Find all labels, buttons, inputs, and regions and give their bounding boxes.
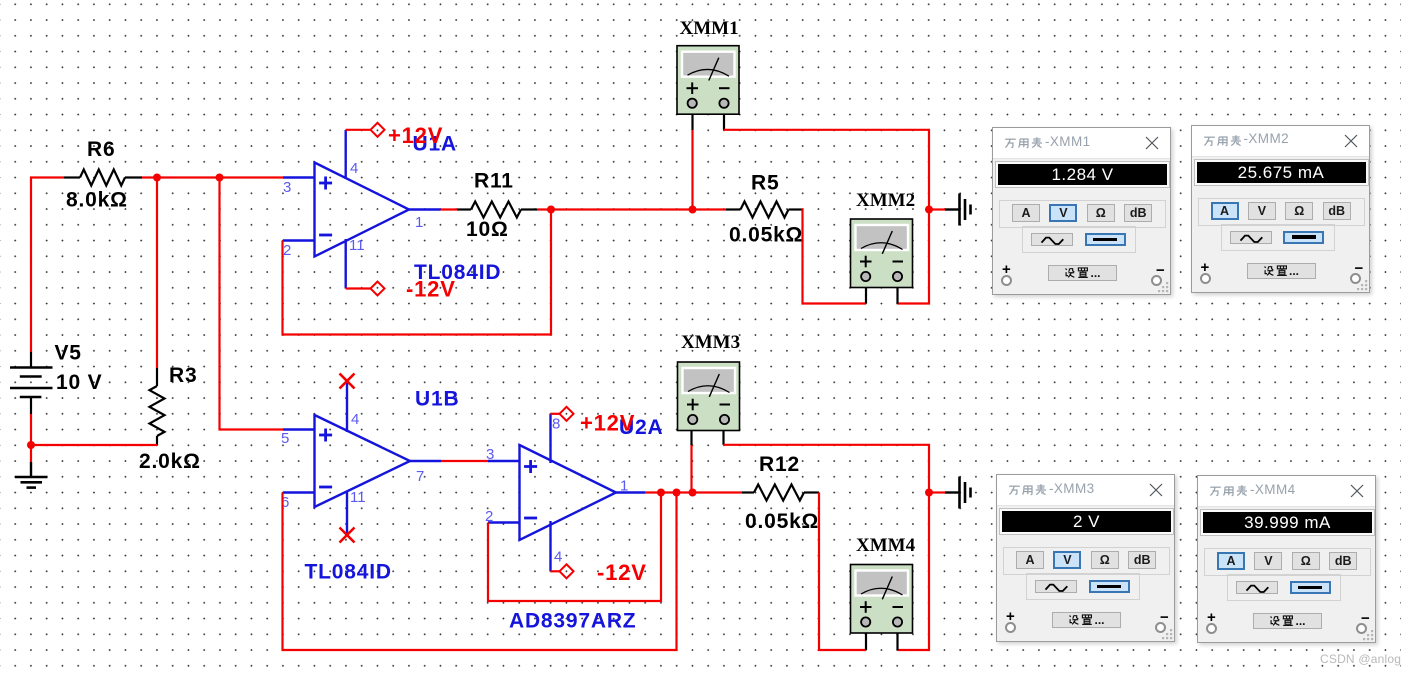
wire: V5 top to R6 left: [31, 178, 64, 353]
wire: R6 to U1A pin3: [142, 176, 283, 178]
wire: U1A feedback loop (pin2): [283, 210, 552, 335]
svg-text:2: 2: [485, 508, 493, 525]
svg-text:0.05kΩ: 0.05kΩ: [729, 224, 803, 247]
junction: U1B branch tap: [216, 174, 224, 182]
svg-text:U1B: U1B: [415, 388, 459, 411]
svg-text:4: 4: [554, 549, 562, 566]
svg-text:10Ω: 10Ω: [466, 218, 509, 241]
svg-text:4: 4: [350, 160, 358, 177]
svg-text:1: 1: [620, 478, 628, 495]
svg-text:+12V: +12V: [388, 123, 443, 148]
wire: XMM4 minus to ground node: [898, 493, 930, 651]
svg-text:R11: R11: [474, 170, 514, 193]
svg-text:2.0kΩ: 2.0kΩ: [139, 450, 201, 473]
junction: ground node (bottom): [925, 489, 933, 497]
wire: R11 to R5: [537, 208, 726, 210]
svg-text:0.05kΩ: 0.05kΩ: [745, 510, 819, 533]
XMM2 minus terminal stub: [896, 288, 898, 304]
ground (V5): [15, 462, 48, 488]
power -12V (U1A pin 11): [346, 277, 456, 302]
svg-text:R3: R3: [169, 364, 197, 387]
svg-text:4: 4: [351, 411, 359, 428]
wire: tap down to U1B pin5: [220, 178, 284, 430]
svg-text:5: 5: [281, 430, 289, 447]
wire: tap down to R3: [156, 178, 158, 369]
svg-text:R6: R6: [87, 138, 115, 161]
wire: XMM3 plus down to output node: [690, 429, 692, 493]
op-amp U2A (AD8397ARZ): [485, 414, 663, 633]
wire: U1B output to U2A pin3: [441, 460, 490, 462]
resistor R11: [457, 170, 537, 242]
resistor R3: [139, 364, 201, 473]
wire: XMM1 plus down to output node: [691, 115, 693, 210]
ground (top right): [929, 194, 971, 226]
junction: U1B feedback tap: [673, 489, 681, 497]
power +12V (U1A pin 4): [346, 123, 444, 148]
svg-text:XMM3: XMM3: [681, 332, 740, 353]
svg-text:2: 2: [283, 242, 291, 259]
wire: U1A output to R11: [441, 208, 458, 210]
junction: R3 tap: [153, 174, 161, 182]
op-amp U1B (TL084ID): [281, 382, 459, 584]
op-amp U1A (TL084ID): [283, 130, 501, 289]
svg-text:V5: V5: [55, 342, 82, 365]
power -12V (U2A pin 4): [551, 560, 647, 585]
junction: XMM3 plus tap: [689, 489, 697, 497]
wire: XMM2 minus to ground node: [898, 210, 930, 304]
XMM2 plus terminal stub: [865, 288, 867, 304]
resistor R12: [742, 453, 819, 533]
no-connect X (U1B pin 4): [340, 374, 355, 389]
wire: R5 down to XMM2 plus: [802, 210, 867, 304]
svg-text:10 V: 10 V: [56, 371, 102, 394]
svg-text:11: 11: [349, 237, 365, 254]
svg-text:-12V: -12V: [406, 277, 456, 302]
svg-text:XMM2: XMM2: [856, 190, 915, 211]
junction: XMM1 plus tap: [689, 206, 697, 214]
svg-text:R12: R12: [759, 453, 800, 476]
no-connect X (U1B pin 11): [340, 528, 355, 543]
multimeter icon XMM1: [677, 18, 739, 114]
svg-text:7: 7: [416, 468, 424, 485]
svg-text:+12V: +12V: [580, 411, 635, 436]
wire: R12 down to XMM4 plus: [819, 493, 866, 651]
wire: XMM3 minus over to ground node: [724, 429, 930, 493]
voltage source V5: [10, 342, 102, 415]
junction: ground node (top): [925, 206, 933, 214]
wire: U2A output to R12: [645, 491, 742, 493]
power +12V (U2A pin 8): [551, 407, 636, 436]
watermark: [1320, 652, 1401, 666]
svg-text:-12V: -12V: [597, 560, 647, 585]
svg-text:11: 11: [350, 489, 366, 506]
wire: V5 minus to R3 bottom: [31, 414, 157, 462]
junction: U2A feedback tap: [657, 489, 665, 497]
multimeter icon XMM2: [851, 190, 916, 288]
XMM4 minus terminal stub: [896, 633, 898, 650]
junction: V5/ground/R3: [27, 441, 35, 449]
svg-text:XMM1: XMM1: [680, 18, 739, 39]
svg-text:8: 8: [552, 416, 560, 433]
wire: U1B feedback from U2A output (pin6): [283, 493, 677, 651]
svg-text:3: 3: [486, 446, 494, 463]
svg-text:1: 1: [415, 214, 423, 231]
XMM4 plus terminal stub: [865, 633, 867, 650]
svg-text:R5: R5: [751, 172, 779, 195]
wire: XMM1 minus over to ground node: [724, 115, 929, 210]
svg-text:AD8397ARZ: AD8397ARZ: [509, 610, 636, 633]
multimeter icon XMM4: [851, 535, 916, 633]
resistor R5: [726, 172, 803, 247]
svg-text:8.0kΩ: 8.0kΩ: [66, 189, 128, 212]
svg-text:3: 3: [283, 179, 291, 196]
wire: U2A feedback loop (pin2): [488, 493, 661, 602]
multimeter icon XMM3: [678, 332, 741, 431]
svg-text:XMM4: XMM4: [856, 535, 916, 556]
svg-text:TL084ID: TL084ID: [305, 561, 392, 584]
resistor R6: [64, 138, 142, 212]
ground (bottom right): [929, 477, 971, 509]
junction: feedback/R11 out: [547, 206, 555, 214]
